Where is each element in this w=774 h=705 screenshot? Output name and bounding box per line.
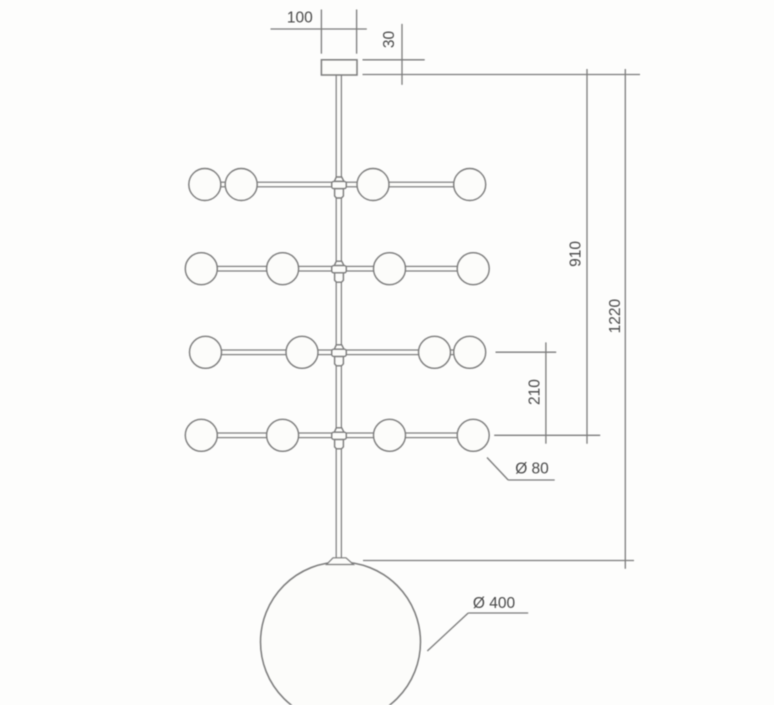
bulb row2 a: [185, 253, 217, 285]
sphere cap: [327, 558, 354, 565]
hub row 4: [332, 428, 347, 449]
dimension 30: [363, 24, 641, 85]
label 210: [527, 379, 544, 405]
leader dia 80: [487, 458, 555, 481]
hub row 2: [332, 261, 347, 282]
bulb row3 a: [190, 336, 222, 368]
arm row 2: [201, 266, 473, 271]
stem: [336, 74, 341, 562]
hub row 1: [332, 177, 347, 198]
bulb row1 c: [357, 169, 389, 201]
bulb row4 a: [185, 419, 217, 451]
svg-text:Ø 400: Ø 400: [473, 595, 516, 612]
bulb row1 d: [454, 169, 486, 201]
svg-text:910: 910: [568, 241, 585, 267]
label 100: [287, 10, 313, 27]
canopy: [321, 60, 357, 75]
label dia 400: [473, 595, 516, 612]
bulb row3 c: [419, 336, 451, 368]
bulb row3 d: [454, 336, 486, 368]
dimension 100: [271, 10, 367, 54]
bulb row1 a: [189, 169, 221, 201]
big sphere: [261, 562, 421, 705]
arm row 4: [201, 433, 473, 438]
dimension 910: [586, 69, 588, 444]
bulb row4 b: [267, 419, 299, 451]
bulb row2 c: [374, 253, 406, 285]
bulb row1 b: [225, 169, 257, 201]
svg-text:Ø 80: Ø 80: [515, 461, 549, 478]
dimension 1220: [363, 69, 634, 569]
label 1220: [607, 298, 624, 333]
label 30: [381, 31, 398, 49]
leader dia 400: [427, 613, 528, 651]
svg-text:30: 30: [381, 31, 398, 49]
bulb row2 d: [457, 253, 489, 285]
bulb row3 b: [286, 336, 318, 368]
arm row 1: [205, 182, 470, 187]
arm row 3: [206, 350, 470, 355]
bulb row4 d: [457, 419, 489, 451]
svg-text:100: 100: [287, 10, 313, 27]
bulb row2 b: [267, 253, 299, 285]
svg-text:1220: 1220: [607, 298, 624, 333]
label dia 80: [515, 461, 549, 478]
bulb row4 c: [374, 419, 406, 451]
dimension 210: [494, 342, 600, 443]
svg-text:210: 210: [527, 379, 544, 405]
hub row 3: [332, 345, 347, 366]
label 910: [568, 241, 585, 267]
